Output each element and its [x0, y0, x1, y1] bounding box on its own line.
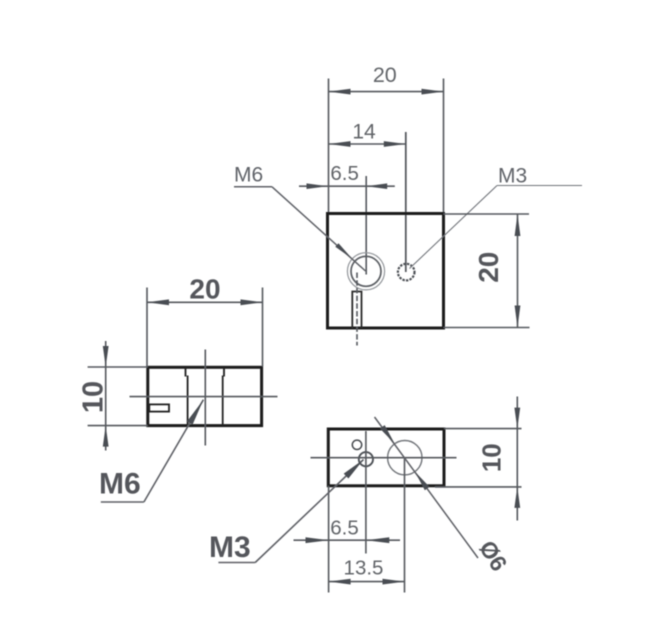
- left 10 dim top arrow pointing down: [103, 346, 109, 367]
- dimension 20 (top) left arrow: [329, 89, 351, 95]
- top view square outline: [328, 214, 444, 329]
- svg-text:10: 10: [477, 443, 507, 472]
- M3 leader line: [410, 186, 498, 269]
- dimension 6.5 (top) right arrow pointing left: [366, 183, 387, 189]
- dimension 20 (top) right arrow: [422, 89, 444, 95]
- dimension 6.5 (bottom) left arrow pointing right: [306, 537, 329, 543]
- extension line right of top 20 dim: [443, 79, 445, 214]
- M6 thread line left main: [187, 376, 189, 426]
- left 20 dim: left extension line: [146, 288, 148, 367]
- slot below M6 hole: [352, 292, 361, 329]
- left 10 dim: bottom extension line: [88, 425, 148, 427]
- M6 bottom leader line: [144, 400, 204, 502]
- svg-text:10: 10: [78, 381, 110, 413]
- M6 hole outer circle: [347, 253, 384, 290]
- svg-text:6.5: 6.5: [330, 162, 359, 185]
- left 10 dim line: [105, 341, 107, 451]
- dimension 13.5 left arrow: [329, 579, 351, 585]
- right 10 dim: top extension line: [444, 428, 522, 430]
- extension line left of top 20 dim: [328, 79, 330, 214]
- dimension 14 right arrow: [384, 141, 406, 147]
- right 10 dim line: [516, 397, 518, 521]
- right 20 dim: bottom extension line: [444, 327, 530, 329]
- dimension 6.5 (bottom) right arrow pointing left: [366, 537, 389, 543]
- dimension 13.5 right arrow: [383, 579, 405, 585]
- left 20 dim left arrow: [147, 299, 169, 305]
- right 20 dim line: [517, 214, 519, 328]
- dia 6 leader line: [375, 417, 479, 558]
- svg-text:M6: M6: [234, 164, 263, 187]
- left view vertical centerline: [204, 350, 206, 446]
- M6 thread line right main: [222, 376, 224, 426]
- extension line below big hole: [404, 458, 406, 593]
- left 20 dim: right extension line: [262, 288, 264, 367]
- dimension 14 left arrow: [329, 141, 351, 147]
- small hole circle (upper): [352, 440, 361, 449]
- right 20 dim: top extension line: [444, 213, 530, 215]
- dia 6 leader top arrowhead pointing up-left: [380, 425, 395, 444]
- right 10 dim bottom arrow pointing up: [514, 487, 520, 508]
- svg-text:M3: M3: [209, 531, 251, 564]
- svg-text:20: 20: [373, 63, 397, 87]
- dimension 20 (top) line: [329, 91, 444, 93]
- bottom view vertical centerline M3: [365, 431, 367, 554]
- right 20 dim bottom arrow: [515, 306, 521, 328]
- M6 label underline: [234, 186, 272, 188]
- dimension 13.5 line: [329, 581, 405, 583]
- M6 thread line left (top jog): [185, 368, 187, 377]
- dimension 6.5 (top) left arrow pointing right: [307, 183, 328, 189]
- dimension 6.5 (bottom) line: [294, 539, 401, 541]
- left 10 dim bottom arrow pointing up: [103, 426, 109, 447]
- svg-text:14: 14: [352, 121, 376, 144]
- M3 hole circle (top view): [398, 264, 415, 281]
- svg-text:M6: M6: [99, 468, 141, 501]
- svg-text:Ø6: Ø6: [474, 536, 512, 576]
- M3 bottom leader arrowhead: [344, 460, 364, 479]
- left view rectangle outline: [148, 367, 262, 425]
- M6 thread line right (top jog): [223, 368, 225, 377]
- bottom view rectangle outline: [328, 429, 444, 486]
- svg-text:6.5: 6.5: [330, 517, 359, 540]
- slot centerline: [356, 273, 358, 346]
- M3 label (bottom) underline: [218, 562, 255, 564]
- svg-text:13.5: 13.5: [344, 557, 384, 580]
- svg-text:20: 20: [189, 274, 220, 305]
- right 10 dim: bottom extension line: [435, 486, 522, 488]
- M6 label (bottom) underline: [101, 501, 144, 503]
- dimension 14 line: [329, 143, 406, 145]
- extension / centerline of M3 hole (vertical): [405, 132, 407, 272]
- left 20 dim right arrow: [241, 299, 263, 305]
- M6 hole inner circle: [351, 256, 381, 286]
- left 20 dim line: [147, 301, 263, 303]
- M6 leader arrowhead: [335, 243, 352, 259]
- M3 bottom leader line: [255, 460, 363, 563]
- dimension 6.5 (top) line: [299, 185, 395, 187]
- svg-text:M3: M3: [498, 165, 527, 188]
- left 10 dim: top extension line: [88, 366, 148, 368]
- dia 6 leader bottom arrowhead pointing down-right: [415, 472, 430, 491]
- M3 label horizontal line: [497, 185, 582, 187]
- M6 leader line: [272, 187, 366, 271]
- big hole circle dia 6: [388, 441, 422, 475]
- M3 hole circle (bottom view): [359, 452, 373, 466]
- M6 bottom leader arrowhead: [187, 400, 203, 425]
- right 20 dim top arrow: [515, 214, 521, 236]
- set screw slot rectangle: [149, 404, 169, 411]
- extension line below left edge: [328, 486, 330, 593]
- right 10 dim top arrow pointing down: [514, 408, 520, 429]
- extension / centerline of M6 hole (vertical): [365, 176, 367, 275]
- bottom view horizontal centerline: [311, 457, 457, 459]
- svg-text:20: 20: [473, 252, 504, 283]
- left view horizontal centerline: [130, 396, 278, 398]
